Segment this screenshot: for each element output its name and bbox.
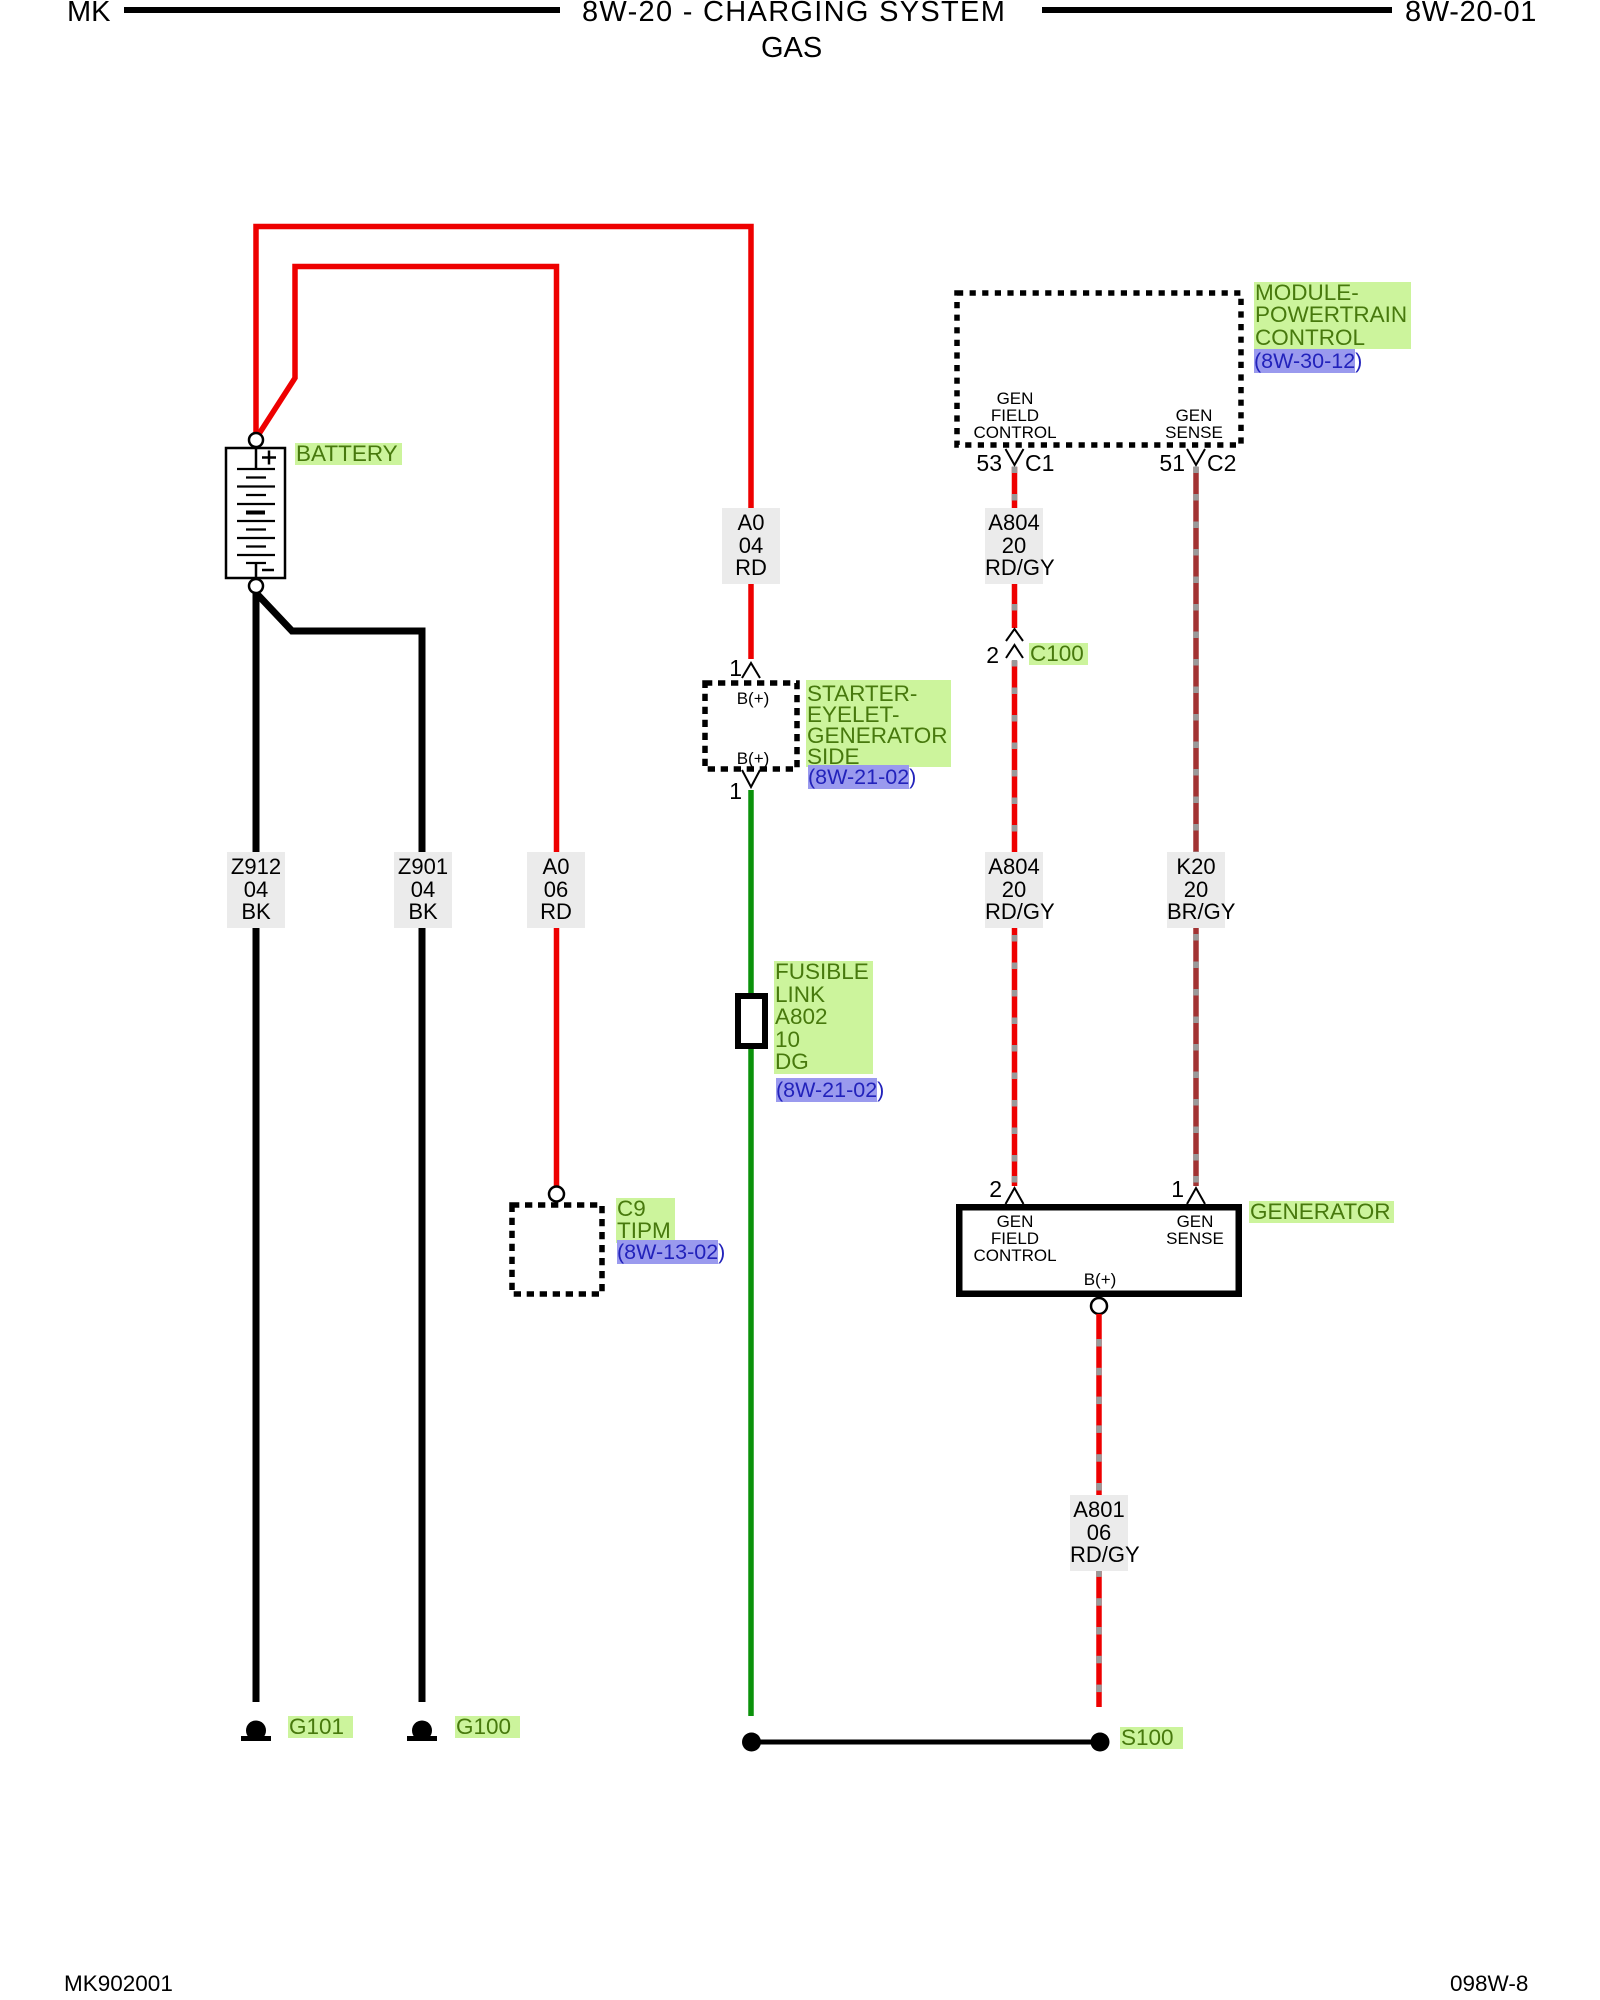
wire label Z901 04 BK [394, 852, 452, 928]
starter eyelet dashed box [705, 683, 797, 769]
link 8W-21-02 fusible [776, 1078, 884, 1102]
battery bottom terminal stub [255, 563, 258, 578]
wire A0 04 RD battery to starter eyelet [256, 227, 751, 660]
C9 TIPM dashed box [512, 1205, 602, 1294]
battery B1 box [226, 448, 285, 578]
connector arrow pin 51 C2 [1187, 449, 1205, 465]
label S100 [1120, 1727, 1183, 1749]
connector arrow pin 2 generator [1006, 1188, 1024, 1204]
header title [582, 0, 1006, 27]
header rule right [1042, 7, 1392, 13]
connector arrow pin 53 C1 [1006, 449, 1024, 465]
battery top terminal stub [255, 448, 258, 469]
ground G100 symbol [407, 1736, 437, 1741]
label G100 [455, 1716, 520, 1738]
pin number 2 generator [972, 1177, 1002, 1201]
generator B(+) terminal circle [1091, 1298, 1107, 1314]
header rule left [124, 7, 560, 13]
battery negative terminal circle [249, 579, 263, 593]
connector arrow pin1 top of starter eyelet [742, 663, 760, 678]
generator pin text GEN FIELD CONTROL [965, 1213, 1065, 1264]
pin number 51 [1155, 451, 1185, 475]
footer document number [64, 1973, 173, 1996]
header MK [67, 0, 111, 27]
fusible link A802 box [738, 996, 765, 1046]
wire A804 20 RD/GY lower segment [1012, 661, 1018, 1186]
wire A804 20 RD/GY upper segment [1012, 467, 1018, 628]
ground G101 symbol [241, 1736, 271, 1741]
PCM pin text GEN SENSE [1144, 407, 1244, 441]
header subtitle GAS [761, 34, 822, 63]
connector arrow pin1 bottom of starter eyelet [742, 770, 760, 787]
wire A0 06 RD battery to TIPM C9 [257, 267, 557, 1188]
splice S100 bus [751, 1740, 1100, 1745]
footer sheet number [1450, 1973, 1528, 1996]
label FUSIBLE LINK A802 10 DG [774, 961, 873, 1074]
wire label K20 20 BR/GY [1167, 852, 1225, 928]
wire label A804 20 RD/GY lower [985, 852, 1043, 928]
label C100 [1029, 643, 1088, 665]
connector arrow pin 1 generator [1187, 1188, 1205, 1204]
wire K20 20 BR/GY [1193, 467, 1199, 1186]
connector C100 chevrons [1006, 629, 1023, 641]
C9 TIPM terminal circle [549, 1187, 564, 1202]
module powertrain control dashed box [957, 293, 1241, 445]
starter B(+) top [723, 690, 783, 707]
battery positive terminal circle [249, 433, 263, 447]
link 8W-30-12 [1254, 349, 1362, 373]
wire label A0 04 RD [722, 508, 780, 584]
wire A801 06 RD/GY generator to S100 [1096, 1314, 1102, 1707]
pin number 2 C100 [969, 643, 999, 667]
pin number 1 starter top [712, 656, 742, 680]
header page number [1405, 0, 1537, 27]
wire fusible link feed upper green [748, 790, 754, 995]
PCM pin text GEN FIELD CONTROL [965, 390, 1065, 441]
label MODULE-POWERTRAIN CONTROL [1254, 282, 1411, 349]
pin number 1 generator [1154, 1177, 1184, 1201]
pin number 53 [972, 451, 1002, 475]
wire A802 10 DG fusible link to S100 [748, 1049, 754, 1716]
label BATTERY [295, 443, 402, 465]
battery plus sign [262, 456, 276, 459]
link 8W-13-02 [617, 1240, 725, 1265]
label G101 [288, 1716, 353, 1738]
wire label A801 06 RD/GY [1070, 1495, 1128, 1571]
wire label A804 20 RD/GY upper [985, 508, 1043, 584]
connector name C1 [1025, 451, 1054, 475]
connector name C2 [1207, 451, 1236, 475]
wire Z912 04 BK battery negative to G101 [253, 593, 260, 1702]
generator pin text GEN SENSE [1145, 1213, 1245, 1247]
splice S100 right junction dot [1091, 1733, 1110, 1752]
starter B(+) bottom [723, 750, 783, 767]
label GENERATOR [1249, 1201, 1394, 1223]
battery minus sign [262, 569, 274, 572]
label STARTER-EYELET-GENERATOR SIDE [806, 680, 951, 767]
wire Z901 04 BK battery negative to G100 [258, 595, 422, 1702]
wire label A0 06 RD [527, 852, 585, 928]
splice S100 left junction dot [742, 1733, 761, 1752]
pin number 1 starter bottom [712, 779, 742, 803]
label C9 TIPM [616, 1198, 675, 1243]
wire label Z912 04 BK [227, 852, 285, 928]
generator B(+) text [1070, 1271, 1130, 1288]
generator box [959, 1207, 1239, 1294]
link 8W-21-02 starter [808, 765, 916, 789]
battery plates [237, 468, 275, 470]
